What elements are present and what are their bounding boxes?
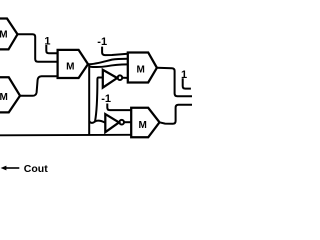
wire hexagon2 to mux M1 input B	[20, 76, 58, 96]
inverter U2	[105, 114, 124, 132]
wire M1 output to M2 input A	[88, 59, 128, 65]
mux M1	[58, 50, 88, 78]
svg-text:M: M	[137, 65, 145, 76]
svg-text:M: M	[66, 62, 74, 73]
svg-text:-1: -1	[97, 36, 107, 48]
Cout arrowhead	[1, 166, 7, 171]
wire U2 output to M3	[124, 121, 131, 123]
wire long carry net (bottom)	[0, 134, 131, 137]
mux M3	[131, 108, 159, 138]
svg-text:Cout: Cout	[24, 163, 48, 175]
wire M1 output to M2 input B	[89, 64, 128, 67]
wire junction squiggle to inverter U2 input	[89, 121, 105, 123]
wire U1 output to M2	[122, 77, 128, 79]
svg-text:M: M	[139, 120, 147, 131]
wire Cout arrow line	[6, 167, 20, 169]
input hexagon M (left-middle)	[0, 77, 20, 112]
mux M2	[128, 53, 157, 83]
inverter U1	[103, 70, 122, 88]
wire constant 1 stub (right)	[183, 78, 191, 88]
wire constant 1 to M1 select	[46, 45, 57, 53]
wire M3 output to right edge	[160, 105, 193, 124]
wire node: M1 output branch down	[88, 65, 90, 136]
wire branch to inverter U1 input	[95, 78, 103, 122]
wire constant -1 to M3 select	[107, 104, 131, 111]
svg-text:-1: -1	[101, 93, 111, 105]
svg-text:1: 1	[44, 35, 50, 47]
wire constant -1 to M2 select	[102, 47, 128, 56]
input hexagon M (top-left)	[0, 19, 18, 50]
wire hexagon1 to mux M1 input A	[18, 34, 58, 62]
svg-text:M: M	[0, 92, 8, 103]
svg-text:M: M	[0, 30, 8, 41]
wire M2 output to right edge	[157, 68, 192, 96]
